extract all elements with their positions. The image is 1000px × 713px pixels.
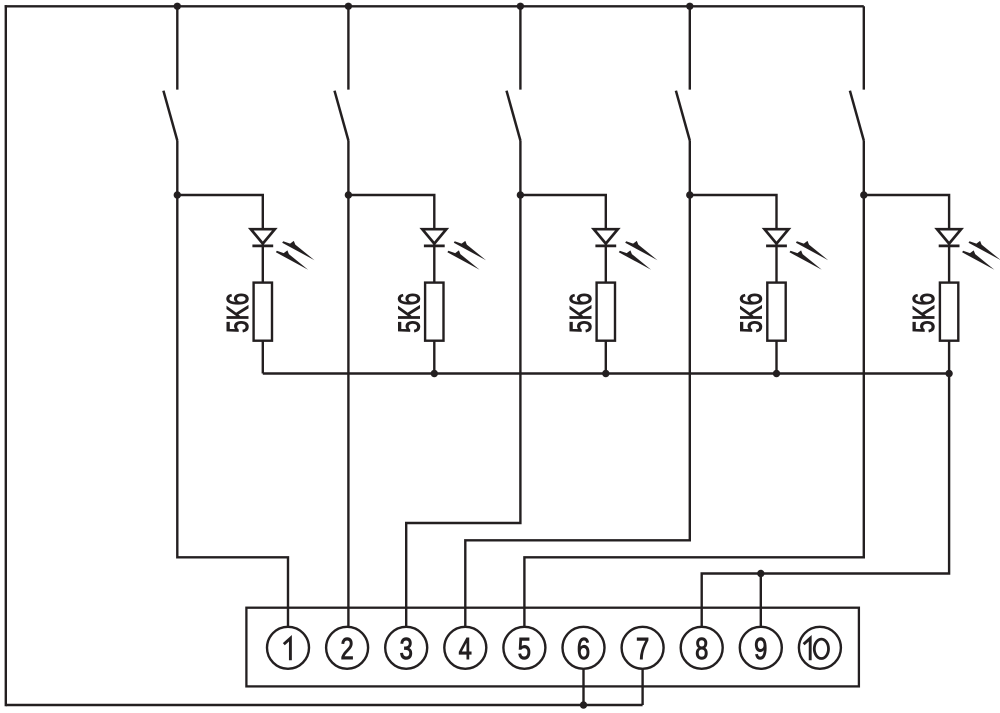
resistor R3 body bbox=[597, 283, 615, 341]
node top-bus junction branch 2 bbox=[345, 3, 352, 10]
terminal 6 bbox=[563, 627, 605, 669]
junction dot resistor bus / R2 bbox=[431, 370, 438, 377]
terminal 2 bbox=[326, 627, 368, 669]
wire switch S3 to node N3 bbox=[519, 141, 521, 196]
wire terminal 6 to bottom bus bbox=[582, 669, 584, 705]
node top-bus junction branch 1 bbox=[174, 3, 181, 10]
terminal 1 bbox=[267, 627, 309, 669]
svg-text:5K6: 5K6 bbox=[563, 293, 598, 333]
svg-text:5K6: 5K6 bbox=[391, 293, 426, 333]
junction dot resistor bus / R3 bbox=[602, 370, 609, 377]
LED D5 light arrows bbox=[969, 241, 1000, 260]
wire resistor R3 to bottom bus bbox=[605, 341, 607, 374]
resistor R1 body bbox=[254, 283, 272, 341]
wire LED D4 cathode to resistor R4 bbox=[775, 246, 777, 283]
wire node N3 to terminal 3 bbox=[406, 195, 520, 627]
node N2 junction dot bbox=[345, 191, 352, 198]
junction dot terminal 6 / bottom bus bbox=[580, 701, 587, 708]
wire right drop from resistor bus to terminal row bbox=[702, 374, 949, 627]
wire LED D3 cathode to resistor R3 bbox=[605, 246, 607, 283]
svg-text:5K6: 5K6 bbox=[734, 293, 769, 333]
wire resistor R2 to bottom bus bbox=[433, 341, 435, 374]
svg-text:7: 7 bbox=[636, 631, 649, 666]
wire resistor R1 to bottom bus bbox=[262, 341, 264, 374]
LED D4 light arrows bbox=[796, 241, 828, 260]
svg-text:5K6: 5K6 bbox=[906, 293, 941, 333]
wire node N3 to LED D3 anode bbox=[520, 195, 605, 229]
terminal 5 bbox=[503, 627, 545, 669]
junction dot resistor bus / right drop bbox=[945, 370, 952, 377]
wire node N1 to LED D1 anode bbox=[177, 195, 262, 229]
resistor R2 body bbox=[425, 283, 443, 341]
svg-text:5K6: 5K6 bbox=[220, 293, 255, 333]
LED D3 (photodiode triangle + cathode bar) bbox=[594, 229, 618, 246]
wire resistor R5 to bottom bus bbox=[948, 341, 950, 374]
LED D4 (photodiode triangle + cathode bar) bbox=[765, 229, 789, 246]
svg-text:2: 2 bbox=[340, 631, 353, 666]
wire branch 3 from top bus to switch S3 bbox=[519, 6, 521, 89]
wire switch S2 to node N2 bbox=[347, 141, 349, 196]
terminal 7 bbox=[622, 627, 664, 669]
switch S3 blade bbox=[507, 91, 521, 141]
wire switch S4 to node N4 bbox=[689, 141, 691, 196]
wire LED D5 cathode to resistor R5 bbox=[948, 246, 950, 283]
wire tap to terminal 9 bbox=[760, 574, 762, 627]
wire resistor common bus bbox=[263, 372, 949, 374]
wire branch 2 from top bus to switch S2 bbox=[347, 6, 349, 89]
LED D2 light arrows bbox=[454, 241, 486, 260]
wire LED D1 cathode to resistor R1 bbox=[262, 246, 264, 283]
wire branch 5 from top bus to switch S5 bbox=[863, 6, 865, 89]
node N3 junction dot bbox=[517, 191, 524, 198]
wire terminal 7 to bottom bus bbox=[641, 669, 643, 705]
junction dot resistor bus / R4 bbox=[773, 370, 780, 377]
junction dot terminal 9 tap bbox=[757, 570, 764, 577]
svg-text:8: 8 bbox=[695, 631, 708, 666]
LED D1 light arrows bbox=[282, 241, 314, 260]
wire top supply bus bbox=[5, 5, 864, 7]
resistor R4 body bbox=[767, 283, 785, 341]
terminal 3 bbox=[385, 627, 427, 669]
terminal 10 bbox=[799, 627, 841, 669]
wire branch 1 from top bus to switch S1 bbox=[176, 6, 178, 89]
wire node N5 to LED D5 anode bbox=[864, 195, 949, 229]
wire node N2 to terminal 2 bbox=[347, 195, 349, 627]
switch S2 blade bbox=[335, 91, 349, 141]
svg-text:9: 9 bbox=[754, 631, 767, 666]
node top-bus junction branch 4 bbox=[686, 3, 693, 10]
wire branch 4 from top bus to switch S4 bbox=[689, 6, 691, 89]
svg-text:3: 3 bbox=[400, 631, 413, 666]
terminal 8 bbox=[681, 627, 723, 669]
terminal 4 bbox=[444, 627, 486, 669]
LED D5 (photodiode triangle + cathode bar) bbox=[937, 229, 961, 246]
wire LED D2 cathode to resistor R2 bbox=[433, 246, 435, 283]
wire left border (supply return) bbox=[5, 5, 7, 706]
LED D2 (photodiode triangle + cathode bar) bbox=[422, 229, 446, 246]
wire resistor R4 to bottom bus bbox=[775, 341, 777, 374]
node N4 junction dot bbox=[686, 191, 693, 198]
svg-text:4: 4 bbox=[459, 631, 472, 666]
wire node N2 to LED D2 anode bbox=[348, 195, 434, 229]
resistor R5 body bbox=[940, 283, 958, 341]
wire node N4 to terminal 4 bbox=[465, 195, 690, 627]
terminal 9 bbox=[740, 627, 782, 669]
terminal block outline bbox=[246, 608, 859, 687]
switch S1 blade bbox=[163, 91, 177, 141]
switch S4 blade bbox=[676, 91, 690, 141]
node N5 junction dot bbox=[860, 191, 867, 198]
wire switch S5 to node N5 bbox=[863, 141, 865, 196]
LED D3 light arrows bbox=[625, 241, 657, 260]
wire switch S1 to node N1 bbox=[176, 141, 178, 196]
node N1 junction dot bbox=[174, 191, 181, 198]
wire bottom return bus bbox=[6, 704, 643, 706]
LED D1 (photodiode triangle + cathode bar) bbox=[251, 229, 275, 246]
wire node N5 to terminal 5 bbox=[524, 195, 863, 627]
svg-text:6: 6 bbox=[577, 631, 590, 666]
wire node N1 to terminal 1 bbox=[177, 195, 288, 627]
svg-text:5: 5 bbox=[518, 631, 531, 666]
switch S5 blade bbox=[850, 91, 864, 141]
node top-bus junction branch 3 bbox=[517, 3, 524, 10]
wire node N4 to LED D4 anode bbox=[690, 195, 777, 229]
